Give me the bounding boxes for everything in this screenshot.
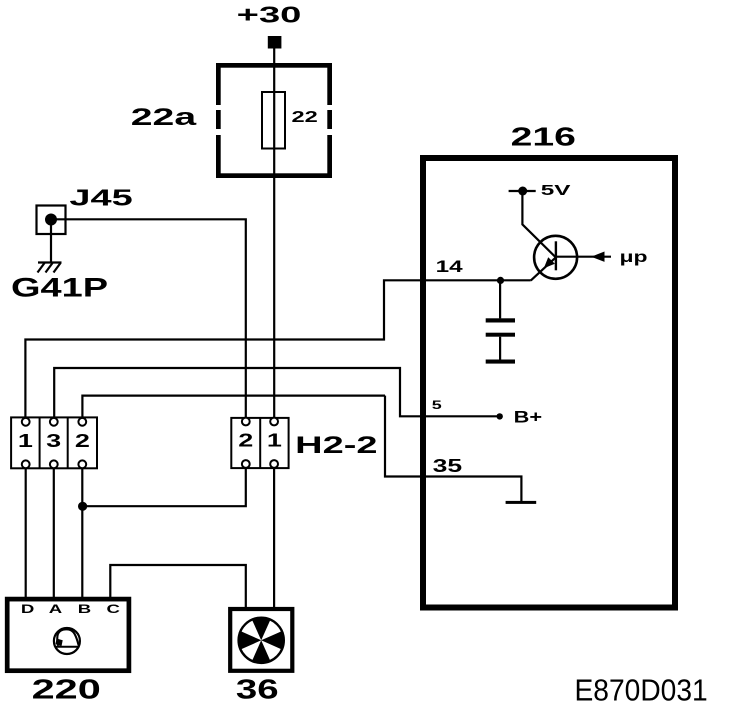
svg-text:2: 2 <box>238 430 253 450</box>
svg-text:E870D031: E870D031 <box>575 674 708 708</box>
svg-text:35: 35 <box>433 456 463 476</box>
connector J45 <box>37 206 66 235</box>
node junction dot <box>78 502 87 511</box>
svg-text:+30: +30 <box>237 2 302 28</box>
wire H2-2 pin3 top to 216 pin5 <box>54 368 420 418</box>
wire H2-2 right pin1 bottom to fan 36 <box>273 468 275 608</box>
wire H2-2 pin2 top to 216 pin35 <box>82 396 385 418</box>
svg-text:A: A <box>49 603 62 616</box>
fuse box 22a <box>216 63 332 178</box>
ground G41P <box>38 263 62 273</box>
node junction 14 <box>497 277 504 284</box>
pin label 3 left <box>46 431 61 451</box>
pin label C <box>106 603 119 616</box>
wire pin 14 <box>420 279 531 281</box>
svg-text:5: 5 <box>432 400 443 412</box>
svg-text:2: 2 <box>75 431 90 451</box>
svg-text:14: 14 <box>436 258 463 276</box>
wire terminal to fuse <box>273 48 275 63</box>
wire through fuse <box>273 63 275 418</box>
pin label A <box>49 603 62 616</box>
pump box 220 <box>7 599 129 671</box>
svg-text:B+: B+ <box>514 408 543 427</box>
pin label 2 left <box>75 431 90 451</box>
svg-text:B: B <box>78 603 91 616</box>
svg-text:22a: 22a <box>131 104 197 131</box>
svg-text:D: D <box>21 603 34 616</box>
connector block H2-2 left <box>11 417 97 468</box>
terminal +30 <box>268 36 282 49</box>
wire H2-2 left pin3 bottom to 220 A <box>53 468 55 597</box>
svg-text:216: 216 <box>511 124 576 152</box>
svg-text:5V: 5V <box>541 183 571 199</box>
connector block H2-2 right <box>231 418 288 469</box>
pin label D <box>21 603 34 616</box>
svg-text:1: 1 <box>18 431 33 451</box>
svg-text:1: 1 <box>267 430 282 450</box>
svg-text:C: C <box>106 603 119 616</box>
ground internal 216 <box>506 501 537 504</box>
wire pin 5 B+ <box>420 415 500 417</box>
pin label 1 right <box>267 430 282 450</box>
svg-text:J45: J45 <box>69 185 132 211</box>
wire pin 35 to internal ground <box>385 396 521 503</box>
wire H2-2 pin1 top to 216 pin14 <box>25 280 420 418</box>
svg-text:3: 3 <box>46 431 61 451</box>
svg-text:μp: μp <box>620 249 648 266</box>
svg-text:22: 22 <box>292 109 318 126</box>
capacitor C1 <box>486 280 515 363</box>
wire J45 to H2-2 pin2 <box>51 219 246 418</box>
node 5V dot and lead <box>509 190 536 192</box>
wire H2-2 right pin2 bottom to junction <box>82 468 246 506</box>
node J45 dot <box>45 214 57 226</box>
fan symbol <box>239 618 284 663</box>
svg-text:H2-2: H2-2 <box>295 432 377 459</box>
svg-text:36: 36 <box>236 674 279 705</box>
svg-text:220: 220 <box>32 674 101 705</box>
wire H2-2 left pin2 bottom to 220 B <box>81 468 83 597</box>
pump symbol <box>54 628 80 654</box>
wire H2-2 left pin1 bottom to 220 D <box>25 468 27 597</box>
pin label 2 right <box>238 430 253 450</box>
node B+ dot <box>497 413 503 419</box>
wire 5V to transistor collector <box>522 191 556 258</box>
pin label 1 left <box>18 431 33 451</box>
svg-text:G41P: G41P <box>11 273 108 303</box>
wire 220 C to fan 36 <box>110 565 246 608</box>
fan box 36 <box>230 609 292 671</box>
wire J45 to ground <box>50 220 52 263</box>
ECU box 216 <box>423 158 675 608</box>
pin label B <box>78 603 91 616</box>
fuse element 22 <box>262 92 285 149</box>
transistor Q1 <box>531 236 611 281</box>
